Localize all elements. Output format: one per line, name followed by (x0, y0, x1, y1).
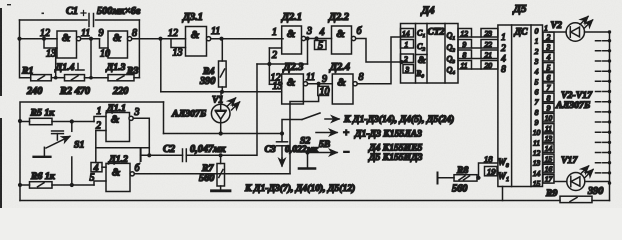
capacitor C3 (277, 134, 288, 164)
node on left bus at main wire (17, 37, 21, 41)
pin box 6 D5 output 5 (543, 73, 554, 82)
pin 10 tie box D2.4 (318, 84, 330, 98)
wire C2 to Va corner (186, 154, 256, 156)
pin box 2 (401, 54, 414, 64)
switch S1 (34, 122, 72, 186)
dashed wire to LED V7 (not drawn) (596, 80, 609, 82)
pin box 3 (403, 65, 414, 75)
wire up to S2 (282, 120, 302, 134)
wire R3 right up (134, 77, 139, 79)
junction on LED bus row 5 (608, 80, 611, 83)
junction on LED bus row 6 (608, 90, 611, 93)
resistor R3 (108, 75, 134, 81)
output bubble D2.4 (353, 82, 357, 86)
LED V2 (550, 17, 610, 42)
node main row pin12 D1.4 (42, 37, 46, 41)
wire rail A to D2.3 pin13 (161, 91, 282, 93)
resistor R5 (20, 118, 94, 124)
gate D2.1 (282, 26, 302, 54)
decoder D5 (498, 25, 543, 187)
pin box 9 with wire (458, 40, 481, 50)
wire minus down to ground (307, 153, 309, 169)
pin box 4 D5 output 3 (543, 52, 554, 61)
dashed wire to LED V14 (not drawn) (596, 152, 609, 154)
junction on LED bus row 7 (608, 100, 611, 103)
wire bottom rail (20, 200, 560, 202)
dashed wire to LED V8 (not drawn) (596, 91, 609, 93)
output bubble D1.1 (129, 116, 133, 120)
LED bus vertical (609, 32, 611, 201)
wire C2 row left (141, 154, 183, 156)
node R1/R2 junction (54, 76, 58, 80)
pin box 11 D5 output 10 (543, 124, 554, 133)
junction on LED bus row 3 (608, 59, 611, 62)
junction on LED bus row 0 (608, 30, 611, 33)
wire D2.3 to D2.4 (308, 83, 333, 85)
pin box 20 (481, 61, 498, 71)
node minus (305, 150, 309, 154)
resistor R7 (217, 155, 225, 191)
dashed wire to LED V6 (not drawn) (596, 70, 609, 72)
resistor R9 (560, 196, 610, 202)
pin 4 box D1.2 (91, 163, 102, 174)
wire R5 jog to pin1 D1.1 (94, 117, 106, 122)
output bubble D1.4 (77, 37, 81, 41)
dashed wire to LED V13 (not drawn) (596, 141, 609, 143)
wire D2.1 out drop (307, 39, 309, 65)
pin box 23 (481, 29, 498, 39)
resistor R6 (20, 182, 94, 188)
wire D2.4 out to C1 input D4 (357, 37, 400, 84)
dashed wire to LED V15 (not drawn) (596, 162, 609, 164)
dashed wire to LED V12 (not drawn) (596, 131, 609, 133)
output bubble D2.3 (303, 82, 307, 86)
pin box 3 D5 output 2 (543, 42, 554, 51)
ground R7 (212, 189, 231, 192)
node rail B right end (280, 131, 284, 135)
junction on LED bus row 4 (608, 70, 611, 73)
junction on LED bus row 11 (608, 141, 611, 144)
pin box 22 (481, 40, 498, 50)
wire Va vertical C2 to feedback row (256, 64, 258, 155)
wire pin13 tie D1.4 (44, 39, 57, 48)
junction on LED bus row 1 (608, 39, 611, 42)
dashed wire to LED V11 (not drawn) (596, 121, 609, 123)
terminal bar C2 left (140, 150, 142, 162)
node on supply bus at R6 row (18, 183, 22, 187)
pin box 8 with wire (458, 50, 481, 60)
wire pin12 D2.3 (269, 83, 281, 85)
wire D3.1 out to D2.1 (211, 38, 283, 40)
output bubble D2.2 (352, 36, 356, 40)
wire pin2 D1.1 (96, 130, 106, 132)
junction on LED bus row 14 (608, 171, 611, 174)
gate D3.1 (186, 27, 207, 57)
wire R6 jog to pin5 D1.2 (94, 181, 106, 185)
junction on LED bus row 13 (608, 161, 611, 164)
wire arrow to supply pins (325, 118, 339, 120)
pin box 8 D5 output 7 (543, 93, 554, 102)
wire R8 node to strobe pins (479, 163, 498, 178)
node R8 right (476, 176, 480, 180)
resistor R4 (219, 39, 227, 92)
node R4 top (219, 37, 223, 41)
node C2 left junction (147, 153, 151, 157)
node R7 top (219, 153, 223, 157)
node S1 bottom (70, 183, 74, 187)
pin box 9 D5 output 8 (543, 103, 554, 112)
resistor R1 (31, 75, 52, 81)
pin box 21 (481, 50, 498, 60)
wire arrow minus (308, 152, 338, 154)
wire pin19 strobe (496, 170, 499, 172)
node main row at x160 (158, 37, 162, 41)
pin box 16 D5 output 14 (543, 164, 554, 173)
gate D1.1 (106, 113, 130, 142)
LED V17 (554, 166, 610, 191)
dashed wire to LED V4 (not drawn) (596, 50, 609, 52)
dashed wire to LED V5 (not drawn) (596, 60, 609, 62)
wire D2.2 out to R0 (356, 39, 402, 63)
node V1 bottom on rail B (219, 131, 223, 135)
counter D4 (401, 24, 459, 84)
capacitor C1 (81, 11, 94, 27)
wire feedback row (257, 63, 308, 65)
pin box 17 D5 output 15 (543, 175, 554, 184)
junction on LED bus row 2 (608, 49, 611, 52)
pin box 14 D5 output 12 (543, 144, 554, 153)
wire pin13 tie D3.1 (171, 39, 186, 48)
node pin910 tie D2.4 (317, 82, 321, 86)
resistor R2 (65, 75, 85, 81)
dashed wire to LED V9 (not drawn) (596, 101, 609, 103)
output bubble D1.2 (130, 172, 134, 176)
pin box 11 with wire (458, 61, 481, 71)
wire D1.4 tie down to R1/R2 junction (55, 48, 57, 78)
wire into pin4 D1.2 (102, 166, 106, 168)
junction on LED bus row 12 (608, 151, 611, 154)
dashed wire to LED V3 (not drawn) (596, 40, 609, 42)
gate D1.4 (57, 31, 77, 58)
wire D3.1 input tap down (160, 39, 162, 92)
node pin45 tie D2.2 (314, 36, 318, 40)
wire supply rail top left (20, 102, 164, 201)
gate D1.3 (108, 31, 128, 58)
wire C1 right to corner (96, 19, 140, 21)
wire R1 to R2 (51, 77, 64, 79)
wire R2 to R3 (85, 77, 109, 79)
wire D5 ground stub (502, 187, 504, 201)
node pin2/pin12 drop (267, 62, 271, 66)
wire D1.2 out riser to pin10 tie (290, 96, 319, 174)
wire arrow plus (316, 132, 337, 134)
junction on LED bus row 8 (608, 110, 611, 113)
wire D1.1 out down to C2 (133, 118, 149, 155)
wire pin2 D2.1 (269, 47, 281, 49)
node R2/R3 junction (89, 76, 93, 80)
wire right vertical C1/R3/main junction (138, 20, 140, 78)
node on supply bus at R5 row (18, 119, 22, 123)
wire D1.3 out to D3.1 (132, 38, 186, 40)
output bubble D1.3 (128, 37, 132, 41)
stub mark above R2 (76, 64, 85, 71)
output bubble D2.1 (302, 36, 306, 40)
pin box 1 D5 output 0 (544, 23, 548, 32)
dashed wire to LED V16 (not drawn) (596, 172, 609, 174)
scan artifact left edge (0, 4, 44, 208)
pin box 13 D5 output 11 (543, 134, 554, 143)
resistor R8 (438, 173, 479, 184)
PLACEHOLDER-LED (20, 103, 290, 192)
gate D2.3 (282, 74, 304, 104)
wire D1.2 out to riser (134, 173, 290, 175)
wire D2.1 to D2.2 (306, 38, 332, 40)
ground bar minus (299, 167, 315, 170)
wire D1.4 out to D1.3 (81, 38, 100, 40)
pin box 7 D5 output 6 (543, 83, 554, 92)
pin box 19 (485, 167, 498, 177)
LED V1 (211, 92, 239, 134)
wire pin2 D2.1 pin12 D2.3 vertical (268, 48, 270, 84)
pin box 5 D5 output 4 (543, 63, 554, 72)
wire supply rail right drop to rail B (163, 102, 165, 134)
pin box 15 D5 output 13 (543, 154, 554, 163)
pin box 10 D5 output 9 (543, 113, 554, 122)
node S1 top (70, 119, 74, 123)
wire rail B (164, 133, 283, 135)
wire pin10 tie D1.3 (100, 39, 109, 48)
pin 5 tie box D2.2 (315, 41, 327, 52)
pin box 14 (401, 29, 414, 39)
pin box 2 D5 output 1 (543, 32, 554, 41)
junction on LED bus row 15 (608, 181, 611, 184)
dashed wire to LED V10 (not drawn) (596, 111, 609, 113)
wire pin2/pin4 vertical (95, 131, 97, 163)
gate D2.2 (332, 26, 352, 54)
capacitor C2 (183, 149, 187, 162)
pin box 12 with wire to D5 (458, 29, 481, 39)
gate D1.2 (106, 163, 130, 191)
node between gates over R2 (89, 37, 93, 41)
node D2.1 out (305, 36, 309, 40)
node R4 bottom on rail A (220, 90, 224, 94)
wire cross row to C2 junction (96, 147, 150, 149)
arrow C3 down to common (281, 158, 283, 166)
pin box 1 (401, 40, 414, 50)
gate D2.4 (332, 74, 353, 104)
wire multivibrator left bus (20, 20, 31, 78)
output bubble D3.1 (207, 37, 211, 41)
switch S2 (302, 113, 320, 120)
wire top rail to C1 (20, 19, 88, 21)
junction on LED bus row 10 (608, 131, 611, 134)
node R0 entry (399, 60, 403, 64)
junction on LED bus row 9 (608, 120, 611, 123)
wire node down to R2 right (90, 39, 92, 78)
wire main row from bus to D1.4 (20, 38, 58, 40)
